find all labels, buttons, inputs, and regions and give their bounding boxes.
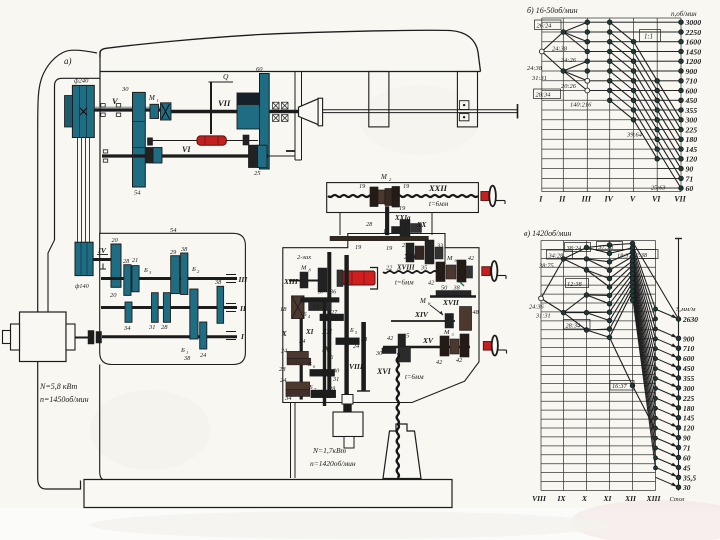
svg-text:42: 42 [456, 357, 462, 364]
gear 20 block [111, 244, 121, 287]
svg-text:М: М [300, 265, 307, 272]
handwheel XVIII with red nut [482, 267, 491, 276]
bottom diagram connectors XIII to table column with arrows [656, 309, 679, 487]
overarm right arbor support bracket [457, 72, 477, 127]
svg-text:34: 34 [284, 395, 292, 402]
gears 34 31 28 on II [125, 302, 132, 322]
top diagram ratio labels [535, 20, 562, 30]
svg-text:35: 35 [420, 265, 427, 272]
handwheel of XXII with red nut [481, 192, 489, 201]
vertical shaft X lines [300, 319, 303, 400]
svg-text:20: 20 [110, 292, 117, 299]
svg-text:180: 180 [683, 404, 695, 413]
svg-text:18: 18 [280, 306, 287, 313]
svg-text:38:75: 38:75 [538, 263, 554, 270]
svg-text:145: 145 [686, 145, 698, 154]
gear pair 28 21 [124, 265, 131, 296]
svg-text:24:38: 24:38 [552, 46, 568, 53]
svg-text:M: M [380, 173, 388, 181]
bearing tick under IV [102, 264, 104, 270]
gear cluster on lower shaft left [146, 148, 153, 164]
gear 25 cluster [243, 135, 249, 145]
shaft XVII [430, 295, 476, 297]
main motor [20, 312, 67, 362]
svg-text:29: 29 [170, 249, 176, 256]
svg-text:Б: Б [349, 327, 354, 334]
pulley f140 [75, 242, 93, 275]
svg-text:26:24: 26:24 [537, 23, 553, 30]
svg-text:180: 180 [686, 135, 698, 144]
telescopic screw support cone [383, 424, 421, 479]
bevel cluster M3 on XV [440, 336, 449, 356]
shaft III [101, 277, 237, 280]
svg-text:в) 1420об/мин: в) 1420об/мин [524, 229, 571, 238]
svg-text:2:38: 2:38 [636, 252, 648, 259]
svg-text:38: 38 [180, 246, 188, 253]
stub line right of gear 25 [267, 155, 295, 157]
svg-text:2-зах: 2-зах [297, 254, 311, 261]
column lower-left inner contour [48, 240, 55, 313]
svg-text:XVIII: XVIII [396, 264, 415, 272]
cone pulley on shaft V [72, 85, 94, 137]
spindle gear block dark [237, 93, 260, 105]
motor coupling [88, 331, 94, 345]
machine head top cover outline [100, 30, 481, 71]
spindle nose cone [299, 99, 319, 125]
gear bar 50-38 [436, 291, 471, 297]
svg-text:25: 25 [254, 170, 261, 177]
svg-text:71: 71 [686, 174, 694, 183]
machine base [84, 480, 452, 508]
svg-text:27: 27 [331, 309, 338, 316]
svg-text:1200: 1200 [686, 57, 702, 66]
svg-text:90: 90 [686, 165, 694, 174]
vertical control shaft with Q mark [210, 82, 212, 134]
svg-text:XI: XI [305, 328, 314, 336]
svg-text:31:31: 31:31 [535, 313, 551, 320]
top diagram grid [542, 18, 681, 192]
svg-text:IX: IX [557, 494, 567, 503]
svg-text:III: III [581, 195, 592, 204]
svg-text:N=5,8 кВт: N=5,8 кВт [39, 382, 77, 391]
svg-text:IV: IV [97, 246, 107, 255]
vertical screw XVI [397, 353, 399, 477]
gear 38 right [217, 286, 224, 323]
svg-text:Стол: Стол [669, 496, 684, 503]
svg-text:XVII: XVII [442, 298, 460, 307]
bar B6 [310, 369, 335, 376]
gear on XIV [445, 314, 454, 329]
shaft XIV [391, 320, 455, 322]
svg-text:XV: XV [422, 336, 434, 345]
svg-text:3: 3 [452, 332, 454, 337]
vertical shaft A [327, 252, 331, 398]
svg-text:24: 24 [281, 348, 287, 355]
svg-text:34: 34 [123, 325, 131, 332]
svg-text:14: 14 [383, 228, 389, 235]
arbor support inner squares [459, 101, 469, 110]
feed console outline [283, 234, 479, 403]
shaft IV [92, 258, 121, 261]
svg-text:35,5: 35,5 [682, 473, 696, 482]
svg-text:31:31: 31:31 [531, 75, 547, 82]
shaft I [102, 335, 237, 338]
feed motor [333, 412, 363, 437]
svg-text:XXIа: XXIа [394, 214, 411, 222]
svg-text:54: 54 [170, 227, 177, 234]
svg-text:710: 710 [683, 344, 695, 353]
svg-text:15: 15 [313, 304, 319, 311]
svg-text:120: 120 [683, 424, 695, 433]
svg-text:S,мм/м: S,мм/м [676, 306, 696, 313]
svg-text:5: 5 [355, 330, 357, 335]
svg-text:26: 26 [327, 354, 334, 361]
svg-text:42: 42 [387, 335, 393, 342]
svg-text:16:37: 16:37 [612, 383, 628, 390]
svg-text:M: M [148, 94, 156, 102]
svg-text:900: 900 [686, 67, 698, 76]
svg-text:900: 900 [683, 334, 695, 343]
bevel cluster M6 on XVIII [436, 262, 445, 282]
pulley shaft stub [65, 96, 73, 128]
svg-text:24:36: 24:36 [529, 304, 545, 311]
double gear block on X [287, 351, 309, 358]
svg-text:28:34: 28:34 [536, 92, 552, 99]
shaft II [101, 306, 237, 309]
svg-text:18:37: 18:37 [617, 253, 633, 260]
head band bottom line [100, 71, 481, 73]
svg-text:Б: Б [180, 347, 185, 354]
svg-text:60: 60 [256, 66, 263, 73]
svg-text:710: 710 [686, 77, 698, 86]
bottom diagram grid [541, 241, 656, 491]
svg-text:VI: VI [182, 145, 191, 154]
svg-text:t=6мм: t=6мм [395, 280, 414, 287]
bar lowest [311, 390, 336, 398]
svg-text:XIII: XIII [646, 494, 662, 503]
svg-text:IV: IV [603, 195, 613, 204]
svg-text:X: X [281, 330, 287, 338]
svg-text:ф140: ф140 [75, 283, 90, 290]
svg-text:355: 355 [685, 106, 698, 115]
clutch M1 [150, 104, 159, 118]
gear block B1 [190, 289, 198, 339]
svg-text:М: М [419, 297, 427, 305]
top diagram speed rays [542, 22, 681, 188]
bottom diagram upper tree [541, 244, 656, 431]
svg-text:19: 19 [359, 183, 365, 190]
gear 30 tall block on shaft V [133, 92, 146, 187]
svg-text:t=6мм: t=6мм [405, 374, 424, 381]
vertical shaft C [361, 322, 366, 391]
svg-text:II: II [239, 304, 247, 313]
svg-text:а): а) [64, 56, 72, 66]
white coupling on shaft VIII [342, 395, 353, 405]
svg-text:N=1,7кВт: N=1,7кВт [312, 446, 347, 455]
svg-text:31: 31 [332, 376, 339, 383]
svg-text:12:38: 12:38 [567, 281, 583, 288]
svg-text:28: 28 [123, 258, 130, 265]
long gear rail XXIa [330, 236, 428, 240]
svg-text:4: 4 [308, 314, 310, 319]
svg-text:42: 42 [436, 359, 442, 366]
svg-text:б) 16-50об/мин: б) 16-50об/мин [527, 6, 578, 15]
upper cluster bars [301, 298, 340, 303]
screw XVIII wavy [383, 271, 437, 273]
svg-text:VI: VI [652, 195, 661, 204]
svg-text:19: 19 [355, 244, 361, 251]
svg-text:24: 24 [200, 352, 206, 359]
spindle gear block teal [237, 105, 260, 130]
svg-text:2630: 2630 [682, 315, 698, 324]
gear cluster on XX [392, 227, 401, 234]
svg-text:42: 42 [468, 255, 474, 262]
svg-text:42: 42 [428, 280, 434, 287]
svg-text:600: 600 [686, 86, 698, 95]
vertical shaft from M2 [385, 207, 389, 236]
svg-text:34:26: 34:26 [560, 57, 577, 64]
svg-text:3000: 3000 [685, 18, 702, 27]
svg-text:60: 60 [686, 184, 694, 193]
shaft VII [171, 110, 299, 113]
svg-text:450: 450 [685, 96, 698, 105]
arbor lines [323, 109, 517, 111]
svg-text:140:216: 140:216 [570, 102, 592, 109]
svg-text:38:24: 38:24 [566, 245, 582, 252]
shaft V [94, 108, 171, 111]
column guideway lower lines [290, 403, 292, 479]
svg-text:VIII: VIII [532, 494, 547, 503]
svg-text:45: 45 [682, 463, 691, 472]
svg-text:1:1: 1:1 [644, 34, 653, 41]
bar B5 [336, 338, 360, 345]
svg-text:36: 36 [329, 289, 337, 296]
svg-text:n=1420об/мин: n=1420об/мин [310, 459, 356, 468]
svg-text:XXII: XXII [428, 183, 448, 193]
bottom diagram nodes [539, 296, 544, 301]
belt housing outline [55, 78, 101, 240]
svg-text:19: 19 [403, 183, 409, 190]
svg-text:57: 57 [318, 289, 325, 296]
bevel clutch M2 on screw [370, 187, 378, 207]
svg-text:ф240: ф240 [74, 78, 89, 85]
svg-text:300: 300 [682, 384, 695, 393]
table screw housing box [327, 183, 479, 213]
svg-text:31: 31 [148, 324, 156, 331]
bottom diagram ratio labels [565, 243, 591, 252]
svg-text:M: M [446, 255, 453, 262]
svg-text:XX: XX [416, 221, 427, 229]
svg-text:28:34: 28:34 [566, 323, 581, 330]
svg-text:n=1450об/мин: n=1450об/мин [40, 395, 89, 404]
svg-text:Q: Q [223, 72, 229, 81]
svg-text:30: 30 [682, 483, 691, 492]
svg-text:XII: XII [321, 328, 332, 336]
svg-text:IX: IX [321, 346, 330, 354]
red safety clutch M4 [337, 270, 343, 287]
shaft XIII [289, 280, 327, 282]
svg-text:t=6мм: t=6мм [429, 200, 449, 208]
machine outer left silhouette [38, 50, 97, 489]
svg-text:54: 54 [134, 190, 141, 197]
gear pair 29 38 [171, 256, 180, 294]
belt lines [77, 138, 79, 243]
svg-text:30: 30 [121, 86, 129, 93]
svg-text:33: 33 [436, 243, 443, 250]
top diagram row lines bold [587, 22, 681, 188]
svg-text:1: 1 [157, 98, 159, 103]
svg-text:II: II [558, 195, 566, 204]
svg-text:30: 30 [375, 350, 383, 357]
svg-text:37:18: 37:18 [598, 244, 615, 251]
svg-text:XI: XI [603, 494, 613, 503]
svg-text:225: 225 [682, 394, 695, 403]
svg-text:28: 28 [279, 366, 286, 373]
red worm on shaft VI [197, 136, 226, 145]
shaft XV [383, 346, 470, 348]
head lower shaft [102, 154, 268, 157]
svg-text:145: 145 [683, 414, 695, 423]
lead screw XXII [328, 195, 478, 197]
spindle bearing cross marks [273, 102, 280, 109]
svg-text:Б: Б [302, 311, 307, 318]
svg-text:27: 27 [402, 242, 409, 249]
svg-text:300: 300 [685, 116, 698, 125]
double gear block lower [286, 382, 310, 390]
svg-text:Б: Б [191, 266, 196, 273]
svg-text:19: 19 [386, 245, 392, 252]
bottom diagram steep fan XII-XIII [633, 242, 679, 468]
svg-text:XII: XII [624, 494, 637, 503]
svg-text:III: III [238, 275, 249, 284]
svg-text:30: 30 [332, 368, 340, 375]
column front edge below gearbox [100, 365, 107, 481]
overarm left bracket [369, 72, 389, 127]
svg-text:20: 20 [112, 237, 119, 244]
handwheel XV with red nut [483, 342, 492, 351]
vertical screw XVI over cone [397, 424, 399, 478]
svg-text:38: 38 [183, 355, 191, 362]
svg-text:20:26: 20:26 [561, 83, 577, 90]
table column vertical [678, 239, 680, 491]
svg-text:V: V [630, 195, 636, 204]
svg-text:VII: VII [218, 98, 231, 108]
XIX corner vertical [444, 235, 446, 264]
vertical shaft VIII main [344, 255, 348, 395]
svg-text:39:64: 39:64 [626, 132, 643, 139]
svg-text:1450: 1450 [686, 47, 702, 56]
svg-text:XIII: XIII [283, 277, 299, 286]
svg-text:28: 28 [161, 324, 168, 331]
svg-text:38: 38 [360, 336, 368, 343]
svg-text:71: 71 [683, 444, 691, 453]
big gear 48 on XVII [460, 307, 472, 331]
green tick [460, 282, 464, 286]
column guideway upper lines [294, 72, 296, 161]
svg-text:355: 355 [682, 374, 695, 383]
svg-text:21: 21 [132, 257, 138, 264]
svg-text:n,об/мин: n,об/мин [671, 10, 697, 18]
svg-text:120: 120 [686, 155, 698, 164]
big gear 60 column [260, 74, 270, 170]
svg-text:225: 225 [685, 126, 698, 135]
svg-text:Б: Б [307, 361, 312, 368]
column left edge [99, 51, 101, 233]
svg-text:XVI: XVI [376, 367, 392, 376]
top diagram nodes [539, 49, 544, 54]
screw housing lower verticals [339, 213, 341, 236]
svg-text:X: X [581, 494, 588, 503]
svg-text:600: 600 [683, 354, 695, 363]
svg-text:XIV: XIV [414, 310, 429, 319]
gear cluster XIX [406, 243, 414, 262]
svg-text:25:63: 25:63 [651, 185, 665, 192]
svg-text:450: 450 [682, 364, 695, 373]
svg-text:48: 48 [473, 309, 480, 316]
brown gear 18 [292, 296, 304, 319]
small gears on XIII [300, 272, 308, 288]
svg-text:XIX: XIX [403, 252, 418, 261]
svg-text:24: 24 [299, 338, 305, 345]
svg-text:22: 22 [386, 265, 392, 272]
svg-text:1600: 1600 [686, 38, 702, 47]
svg-text:60: 60 [683, 454, 691, 463]
svg-text:28: 28 [366, 221, 373, 228]
svg-text:M: M [443, 329, 450, 336]
shaft V bearing marks [101, 104, 105, 107]
svg-text:90: 90 [683, 434, 691, 443]
speed gearbox housing box [100, 233, 246, 364]
worm shaft VI thin line [152, 140, 258, 142]
svg-text:2250: 2250 [685, 28, 702, 37]
svg-text:38: 38 [214, 279, 222, 286]
svg-text:34:28: 34:28 [548, 253, 565, 260]
svg-text:VIII: VIII [349, 362, 364, 371]
svg-text:19: 19 [399, 205, 405, 212]
svg-text:VII: VII [674, 195, 686, 204]
svg-text:Б: Б [143, 267, 148, 274]
svg-text:24:38: 24:38 [527, 65, 543, 72]
